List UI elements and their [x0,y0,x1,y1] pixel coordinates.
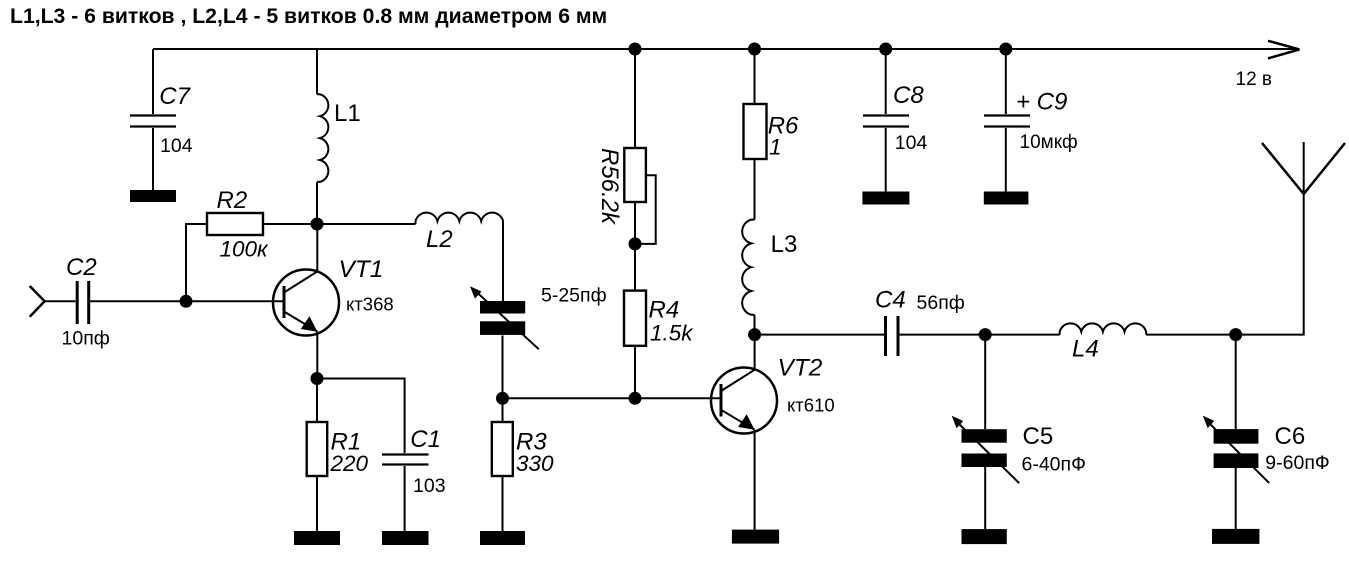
svg-text:C4: C4 [875,287,906,314]
svg-text:L1: L1 [334,100,361,127]
svg-text:330: 330 [516,451,554,476]
svg-text:100к: 100к [220,237,270,262]
svg-text:C7: C7 [159,83,191,110]
svg-text:10пф: 10пф [62,327,110,349]
svg-text:кт610: кт610 [787,394,835,415]
svg-text:R2: R2 [217,187,248,214]
svg-text:кт368: кт368 [346,294,394,315]
svg-text:103: 103 [413,475,446,497]
svg-text:C1: C1 [410,426,441,453]
svg-text:C2: C2 [66,254,97,281]
svg-text:C6: C6 [1275,423,1306,450]
svg-text:+ C9: + C9 [1016,89,1067,116]
svg-text:104: 104 [160,135,193,157]
svg-text:1: 1 [769,135,782,160]
svg-text:L2: L2 [426,226,453,253]
svg-text:104: 104 [895,132,928,154]
svg-text:C5: C5 [1023,423,1054,450]
svg-text:VT1: VT1 [339,256,384,283]
svg-text:R4: R4 [649,297,680,324]
svg-text:12 в: 12 в [1236,69,1273,90]
svg-text:6-40пФ: 6-40пФ [1022,453,1086,475]
svg-text:220: 220 [330,451,369,476]
svg-text:L1,L3 - 6 витков , L2,L4 - 5 в: L1,L3 - 6 витков , L2,L4 - 5 витков 0.8 … [10,5,607,28]
svg-text:VT2: VT2 [778,355,823,382]
svg-text:9-60пФ: 9-60пФ [1265,452,1329,474]
svg-text:C8: C8 [893,82,924,109]
svg-text:R56.2k: R56.2k [596,148,623,226]
svg-text:L3: L3 [771,231,798,258]
svg-text:5-25пф: 5-25пф [541,284,607,306]
svg-text:10мкф: 10мкф [1020,132,1078,153]
svg-text:56пф: 56пф [917,292,965,314]
svg-text:1.5k: 1.5k [650,321,694,346]
svg-text:L4: L4 [1072,335,1099,362]
